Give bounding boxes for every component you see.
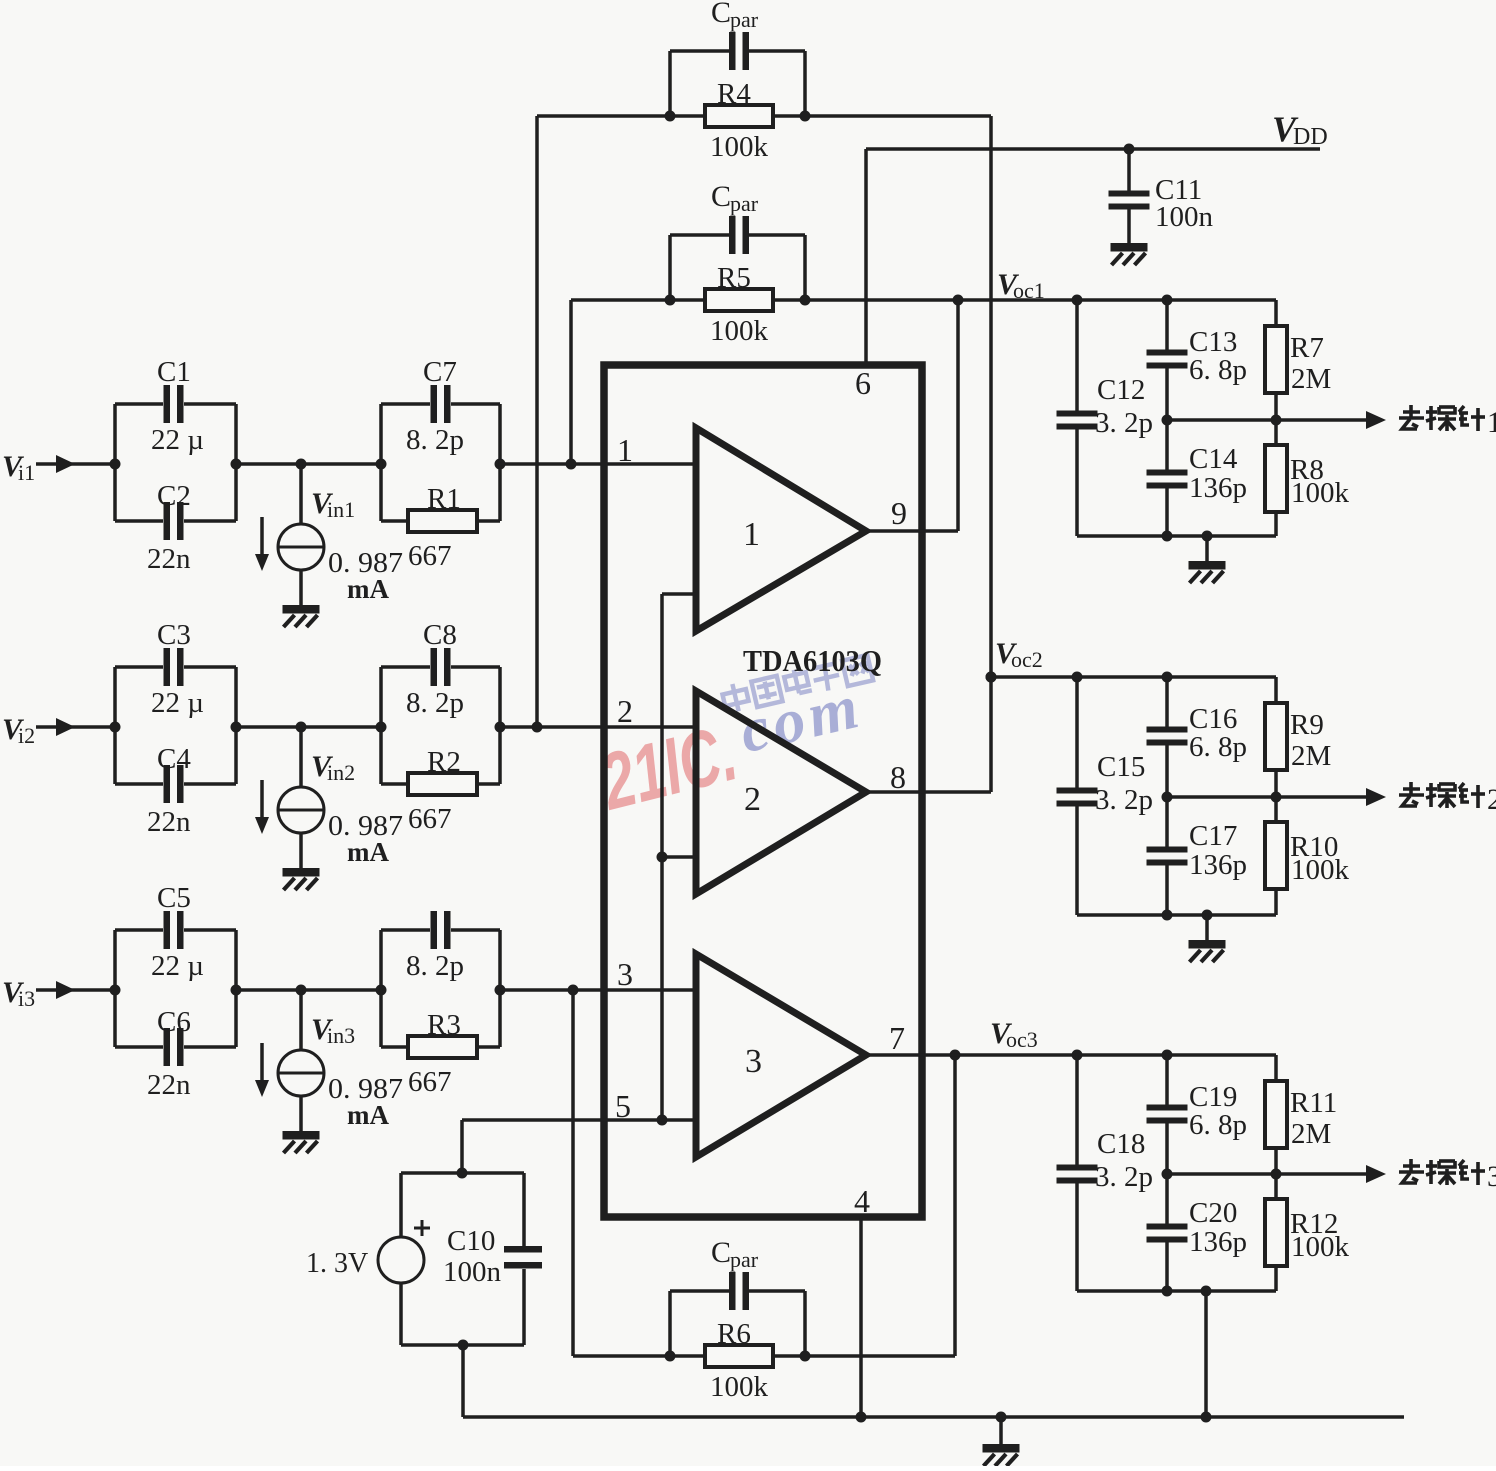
svg-text:C20: C20	[1189, 1197, 1237, 1229]
svg-text:2M: 2M	[1291, 740, 1331, 772]
capacitor pair box C5/C6	[113, 930, 117, 1047]
capacitor C2	[115, 519, 163, 523]
capacitor C16 6.8p	[1165, 677, 1169, 728]
resistor R2 667	[381, 782, 408, 786]
parallel box C8/R2	[379, 667, 383, 784]
svg-text:R4: R4	[717, 78, 751, 110]
wire pin 8 output	[866, 790, 991, 794]
svg-text:7: 7	[889, 1020, 905, 1056]
svg-text:oc2: oc2	[1011, 647, 1043, 672]
svg-text:1: 1	[1487, 406, 1496, 439]
capacitor C10 100n	[522, 1173, 526, 1248]
svg-text:i1: i1	[18, 460, 35, 485]
wire pin row into IC	[500, 462, 696, 466]
input arrowhead Vi3	[56, 981, 75, 999]
svg-text:1: 1	[743, 516, 760, 553]
svg-text:R11: R11	[1290, 1087, 1337, 1119]
svg-text:22n: 22n	[147, 806, 191, 838]
svg-text:100n: 100n	[443, 1256, 502, 1288]
input arrowhead Vi2	[56, 718, 75, 736]
wire R6 row	[573, 1354, 705, 1358]
wire output row to probe 1	[1167, 418, 1368, 422]
wire R4 to pin 8 output riser	[989, 116, 993, 792]
label 去探针1	[1399, 405, 1485, 431]
svg-text:2: 2	[1487, 783, 1496, 816]
svg-text:22n: 22n	[147, 1069, 191, 1101]
svg-text:C15: C15	[1097, 751, 1145, 783]
svg-text:6: 6	[855, 365, 871, 401]
wire C18 bottom row	[1077, 1289, 1276, 1293]
current direction arrow	[260, 517, 264, 556]
svg-text:i2: i2	[18, 723, 35, 748]
wire output network 3 to ground rail	[1204, 1291, 1208, 1417]
svg-text:R6: R6	[717, 1318, 751, 1350]
svg-text:i3: i3	[18, 986, 35, 1011]
wire pin 6 riser	[864, 149, 868, 365]
ground of output network 1	[1205, 536, 1209, 563]
svg-text:par: par	[730, 191, 759, 216]
resistor R8 100k	[1274, 420, 1278, 445]
svg-text:mA: mA	[347, 574, 389, 604]
junction dots R6	[665, 1351, 676, 1362]
capacitor C20 136p	[1165, 1174, 1169, 1225]
wire pin 5 row	[462, 1118, 696, 1122]
junction dots Voc1 row	[1072, 295, 1083, 306]
svg-text:4: 4	[854, 1183, 870, 1219]
resistor R5 100k	[705, 289, 773, 311]
svg-text:C17: C17	[1189, 820, 1237, 852]
svg-text:in2: in2	[327, 760, 355, 785]
svg-text:2: 2	[744, 781, 761, 818]
capacitor Cpar of R5	[668, 235, 672, 300]
capacitor C9 8.2p	[381, 928, 430, 932]
input arrowhead Vi1	[56, 455, 75, 473]
capacitor C14 136p	[1165, 420, 1169, 471]
junction dots Voc2 row	[986, 672, 997, 683]
svg-text:C10: C10	[447, 1225, 495, 1257]
current source Vin3 branch wire	[299, 990, 303, 1050]
svg-text:667: 667	[408, 803, 452, 835]
capacitor Cpar of R6	[668, 1291, 672, 1356]
plus sign of 1.3V source	[414, 1227, 430, 1230]
ground of output network 2	[1205, 915, 1209, 942]
resistor R12 100k	[1274, 1174, 1278, 1199]
svg-text:C7: C7	[423, 356, 457, 388]
IC U1 TDA6103Q body	[604, 365, 922, 1217]
svg-text:22 µ: 22 µ	[151, 424, 204, 456]
wire Vi3 input lead	[36, 988, 115, 992]
op-amp 3 triangle	[696, 954, 866, 1157]
svg-text:1: 1	[617, 432, 633, 468]
wire R6 to pin 7 output riser	[953, 1055, 957, 1356]
wire Vi3 node to series pair	[236, 988, 381, 992]
wire R6 feedback to pin 3	[571, 990, 575, 1356]
junction dots R5	[665, 295, 676, 306]
resistor R1 667	[381, 519, 408, 523]
wire C10 box bottom	[401, 1343, 524, 1347]
wire pin row into IC	[500, 988, 696, 992]
svg-text:22 µ: 22 µ	[151, 687, 204, 719]
svg-text:667: 667	[408, 540, 452, 572]
capacitor C17 136p	[1165, 797, 1169, 848]
svg-text:C6: C6	[157, 1006, 191, 1038]
svg-text:9: 9	[891, 495, 907, 531]
svg-text:100k: 100k	[710, 131, 769, 163]
wire Voc2 row	[991, 675, 1276, 679]
internal reference rail	[660, 594, 664, 1120]
svg-text:8: 8	[890, 759, 906, 795]
svg-text:mA: mA	[347, 1100, 389, 1130]
svg-text:136p: 136p	[1189, 849, 1247, 881]
wire pin row into IC	[500, 725, 696, 729]
wire current source to ground	[299, 1096, 303, 1133]
capacitor C19 6.8p	[1165, 1055, 1169, 1106]
wire R5 feedback to pin 1	[569, 300, 573, 464]
output arrowhead probe 3	[1366, 1165, 1386, 1183]
svg-text:C4: C4	[157, 743, 191, 775]
resistor R3 667	[381, 1045, 408, 1049]
current source Vin2 branch wire	[299, 727, 303, 787]
svg-text:136p: 136p	[1189, 1226, 1247, 1258]
svg-text:C8: C8	[423, 619, 457, 651]
svg-text:100k: 100k	[1291, 477, 1350, 509]
wire Vi2 input lead	[36, 725, 115, 729]
capacitor C1	[115, 402, 163, 406]
svg-text:6. 8p: 6. 8p	[1189, 1109, 1247, 1141]
junction dots R4	[665, 111, 676, 122]
svg-text:667: 667	[408, 1066, 452, 1098]
wire R4 row	[537, 114, 705, 118]
svg-text:100k: 100k	[1291, 854, 1350, 886]
svg-text:oc3: oc3	[1006, 1027, 1038, 1052]
resistor R11 2M	[1274, 1055, 1278, 1081]
svg-text:R1: R1	[427, 483, 461, 515]
svg-text:3: 3	[1487, 1160, 1496, 1193]
svg-text:22n: 22n	[147, 543, 191, 575]
svg-text:100k: 100k	[1291, 1231, 1350, 1263]
wire C12 bottom row	[1077, 534, 1276, 538]
svg-text:oc1: oc1	[1013, 278, 1045, 303]
current source Vin1	[278, 524, 324, 570]
current source Vin2	[278, 787, 324, 833]
svg-text:3. 2p: 3. 2p	[1095, 784, 1153, 816]
svg-text:C2: C2	[157, 480, 191, 512]
current source Vin3	[278, 1050, 324, 1096]
capacitor C7 8.2p	[381, 402, 430, 406]
svg-text:C12: C12	[1097, 374, 1145, 406]
svg-text:par: par	[730, 1247, 759, 1272]
wire pin 9 output	[866, 529, 958, 533]
label 去探针2	[1399, 782, 1485, 808]
wire current source to ground	[299, 833, 303, 870]
capacitor C6	[115, 1045, 163, 1049]
resistor R4 100k	[705, 105, 773, 127]
wire pin 7 output / Voc3 row	[866, 1053, 1276, 1057]
svg-text:6. 8p: 6. 8p	[1189, 731, 1247, 763]
svg-text:in3: in3	[327, 1023, 355, 1048]
capacitor C5	[115, 928, 163, 932]
junction dots input row	[110, 459, 121, 470]
svg-text:8. 2p: 8. 2p	[406, 424, 464, 456]
ground on bottom rail	[999, 1417, 1003, 1446]
ground below current source Vin1	[283, 605, 320, 614]
op-amp 1 triangle	[696, 428, 866, 631]
svg-text:C: C	[711, 1236, 731, 1269]
svg-text:R9: R9	[1290, 709, 1324, 741]
svg-text:R7: R7	[1290, 332, 1324, 364]
resistor R9 2M	[1274, 677, 1278, 703]
svg-text:C: C	[711, 0, 731, 29]
wire to bottom rail	[461, 1345, 465, 1417]
op-amp 2 triangle	[696, 691, 866, 894]
svg-text:100k: 100k	[710, 1371, 769, 1403]
wire C15 bottom row	[1077, 913, 1276, 917]
svg-text:2: 2	[617, 693, 633, 729]
svg-text:100n: 100n	[1155, 201, 1214, 233]
parallel box 8.2p cap/R3	[379, 930, 383, 1047]
svg-text:8. 2p: 8. 2p	[406, 687, 464, 719]
svg-text:mA: mA	[347, 837, 389, 867]
svg-text:1. 3V: 1. 3V	[306, 1248, 368, 1279]
voltage source V1 1.3V	[399, 1173, 403, 1238]
svg-text:TDA6103Q: TDA6103Q	[743, 643, 882, 678]
capacitor pair box C1/C2	[113, 404, 117, 521]
capacitor C3	[115, 665, 163, 669]
wire Vi1 node to series pair	[236, 462, 381, 466]
svg-text:C14: C14	[1189, 443, 1238, 475]
capacitor C18 3.2p	[1075, 1055, 1079, 1166]
svg-text:in1: in1	[327, 497, 355, 522]
resistor R6 100k	[705, 1345, 773, 1367]
current direction arrow	[260, 780, 264, 819]
resistor R7 2M	[1274, 300, 1278, 326]
wire R5 row	[571, 298, 705, 302]
capacitor C4	[115, 782, 163, 786]
ground below current source Vin2	[283, 868, 320, 877]
svg-text:par: par	[730, 7, 759, 32]
wire pin 4 dropper	[859, 1217, 863, 1417]
output arrowhead probe 1	[1366, 411, 1386, 429]
ground below C11	[1111, 243, 1148, 252]
svg-text:6. 8p: 6. 8p	[1189, 354, 1247, 386]
voltage source 1.3V / C10 box top	[401, 1171, 524, 1175]
svg-text:C: C	[711, 180, 731, 213]
svg-text:C18: C18	[1097, 1128, 1145, 1160]
svg-text:3: 3	[745, 1043, 762, 1080]
current source Vin1 branch wire	[299, 464, 303, 524]
watermark 21IC.com 中国电子网	[591, 707, 745, 826]
parallel box C7/R1	[379, 404, 383, 521]
capacitor Cpar of R4	[668, 51, 672, 116]
svg-text:DD: DD	[1293, 124, 1328, 150]
junction dots Voc3 row	[1072, 1050, 1083, 1061]
svg-text:C5: C5	[157, 882, 191, 914]
wire Vi2 node to series pair	[236, 725, 381, 729]
svg-text:8. 2p: 8. 2p	[406, 950, 464, 982]
output arrowhead probe 2	[1366, 788, 1386, 806]
wire ground rail	[463, 1415, 1404, 1419]
label 去探针3	[1399, 1159, 1485, 1185]
svg-text:R3: R3	[427, 1009, 461, 1041]
svg-text:R2: R2	[427, 746, 461, 778]
wire Vi1 input lead	[36, 462, 115, 466]
svg-text:100k: 100k	[710, 315, 769, 347]
capacitor C13 6.8p	[1165, 300, 1169, 351]
resistor R10 100k	[1274, 797, 1278, 822]
node VDD rail	[866, 147, 1320, 151]
svg-text:22 µ: 22 µ	[151, 950, 204, 982]
capacitor C12 3.2p	[1075, 300, 1079, 412]
junction dots input row	[110, 722, 121, 733]
svg-text:R5: R5	[717, 262, 751, 294]
svg-text:3: 3	[617, 956, 633, 992]
wire current source to ground	[299, 570, 303, 607]
capacitor C8 8.2p	[381, 665, 430, 669]
current direction arrow	[260, 1043, 264, 1082]
svg-text:2M: 2M	[1291, 1118, 1331, 1150]
capacitor C11 100n	[1127, 149, 1131, 192]
svg-text:136p: 136p	[1189, 472, 1247, 504]
ground below current source Vin3	[283, 1131, 320, 1140]
svg-text:2M: 2M	[1291, 363, 1331, 395]
svg-text:3. 2p: 3. 2p	[1095, 1161, 1153, 1193]
svg-text:3. 2p: 3. 2p	[1095, 407, 1153, 439]
capacitor C15 3.2p	[1075, 677, 1079, 789]
svg-text:C3: C3	[157, 619, 191, 651]
wire output row to probe 2	[1167, 795, 1368, 799]
capacitor pair box C3/C4	[113, 667, 117, 784]
junction dots input row	[110, 985, 121, 996]
wire output row to probe 3	[1167, 1172, 1368, 1176]
svg-text:C1: C1	[157, 356, 191, 388]
wire R4 feedback to pin 2	[535, 116, 539, 727]
